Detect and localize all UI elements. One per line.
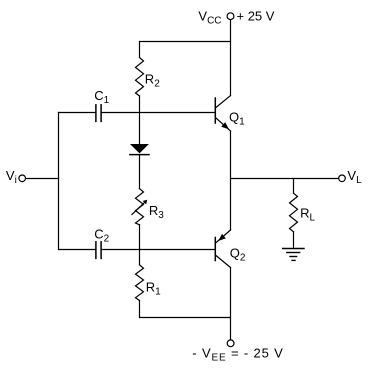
ground: [283, 249, 304, 261]
resistor R2: [136, 57, 144, 96]
transistor Q1: [215, 96, 230, 131]
node VCC terminal: [227, 13, 234, 20]
wire VCC vertical to Q1 collector: [230, 20, 232, 96]
resistor R3 (variable): [132, 189, 147, 225]
wire R3 bottom to C2 row: [139, 225, 141, 250]
wire top horizontal to R2: [140, 42, 231, 58]
wire Q2 collector rail to VEE terminal: [230, 268, 232, 340]
node VL terminal: [339, 175, 346, 182]
wire RL to ground: [293, 232, 295, 249]
wire C1 row left segment: [59, 112, 96, 114]
wire Q1 emitter rail down to Q2 emitter: [230, 131, 232, 230]
wire C2 row right segment to Q2 base: [102, 249, 215, 251]
wire R2 bottom to C1 row: [139, 96, 141, 113]
capacitor C1: [96, 105, 101, 122]
node Vi terminal: [19, 175, 26, 182]
transistor Q2: [215, 230, 230, 268]
capacitor C2: [96, 242, 101, 259]
wire C1 row right segment to Q1 base: [102, 112, 215, 114]
resistor R1: [136, 250, 144, 301]
wire output row: [231, 178, 339, 180]
node VEE terminal: [227, 340, 234, 347]
resistor RL: [290, 193, 298, 232]
wire Vi to left rail: [26, 178, 59, 180]
diode D1: [130, 113, 149, 189]
wire RL branch: [293, 179, 295, 194]
wire R1 bottom to VEE rail: [140, 301, 231, 318]
svg-text:+ 25 V: + 25 V: [237, 9, 275, 24]
wire C2 row left segment: [59, 249, 96, 251]
wire left rail: [58, 113, 60, 250]
